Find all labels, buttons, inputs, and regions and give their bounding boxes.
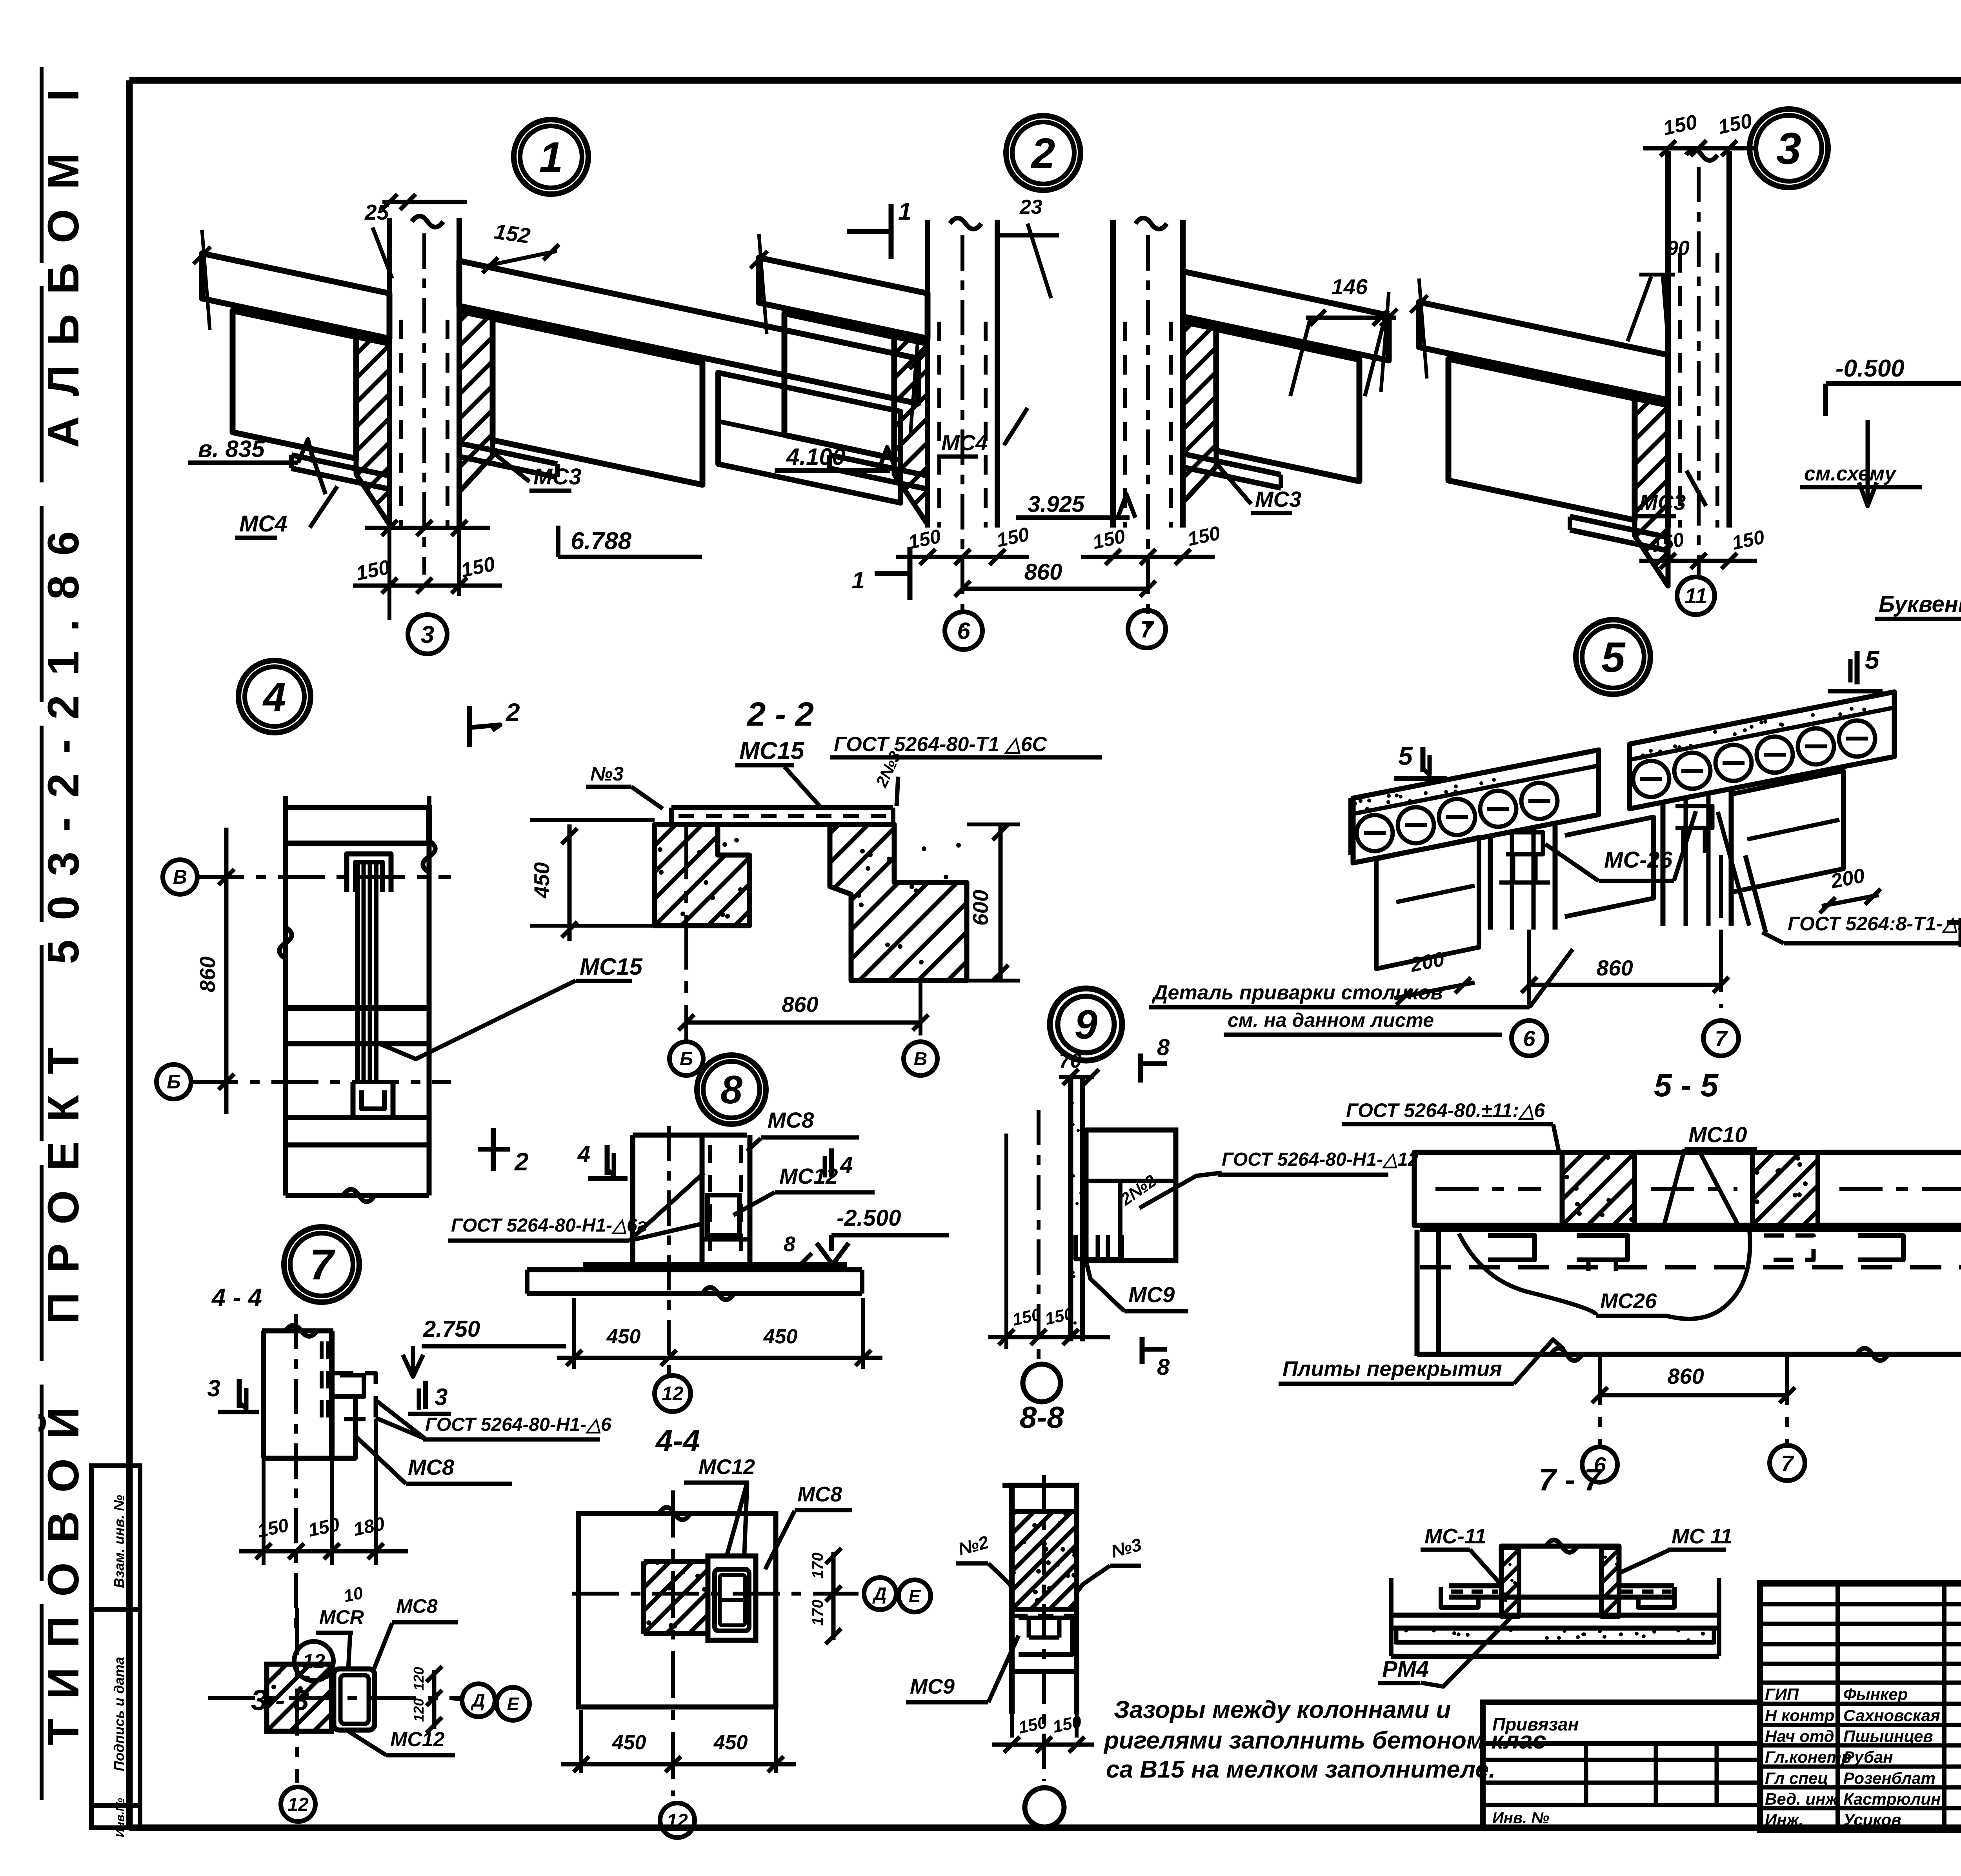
node 8 base [583,1262,847,1267]
section flag 2 top [467,706,472,747]
svg-text:Рубан: Рубан [1843,1748,1893,1766]
svg-text:МС15: МС15 [580,953,643,980]
svg-text:МС3: МС3 [1255,487,1301,511]
svg-text:МС 11: МС 11 [1672,1525,1732,1548]
svg-text:23: 23 [1019,196,1042,218]
svg-text:2 - 2: 2 - 2 [746,696,814,733]
node 4 dim 450 vertical [568,824,572,941]
5-5 dim 860 [1598,1354,1602,1447]
svg-text:в. 835: в. 835 [198,436,265,462]
node 9 bubble [1050,988,1122,1061]
svg-text:Фынкер: Фынкер [1843,1685,1908,1703]
svg-text:5: 5 [1398,741,1413,770]
8-8 column top [1002,1483,1079,1488]
axis bubble 7 [1128,610,1166,648]
svg-text:8: 8 [1157,1035,1170,1060]
svg-text:ГОСТ 5264-80-Н1-△6: ГОСТ 5264-80-Н1-△6 [425,1414,611,1435]
svg-text:4: 4 [840,1152,853,1178]
node 4 top beam [286,808,429,843]
3-3 dim right [432,1670,437,1729]
svg-text:146: 146 [1332,275,1368,299]
svg-text:МС8: МС8 [396,1595,438,1617]
node 9 section flag 8 top [1138,1054,1143,1083]
axis bubble 12 (n7) [294,1641,333,1681]
svg-text:450: 450 [612,1731,646,1754]
svg-text:Кастрюлин: Кастрюлин [1843,1790,1941,1808]
node 4 dim 860 vertical [224,828,229,1114]
svg-text:В: В [914,1049,928,1070]
svg-text:МС12: МС12 [779,1164,838,1188]
title block [1760,1583,1961,1830]
node 4 axis B [156,1064,191,1099]
svg-text:МС-26: МС-26 [1604,847,1673,873]
3-3 axes [208,1696,462,1700]
axis bubbles D E (4-4) [864,1578,896,1610]
svg-text:Пшыинцев: Пшыинцев [1843,1727,1933,1745]
svg-text:МС-11: МС-11 [1424,1525,1486,1548]
axis bubbles D E (3-3) [462,1684,495,1717]
svg-text:1: 1 [852,567,865,593]
node 5 stolik diagonals [1745,855,1766,932]
privyazan box [1483,1702,1760,1828]
svg-text:4: 4 [262,674,286,720]
svg-text:8: 8 [1157,1354,1170,1380]
svg-text:3: 3 [421,621,434,648]
7-7 plate band [1449,1583,1501,1589]
4-4 dim 450 [579,1710,583,1773]
svg-text:МС9: МС9 [1128,1282,1175,1307]
node 2 right slab [1183,271,1389,360]
node 7 base dims [262,1458,266,1565]
svg-text:Б: Б [167,1071,180,1093]
axis bubble V(2-2) [904,1042,937,1075]
node 1 right slab [459,261,918,404]
svg-text:4: 4 [577,1141,590,1167]
svg-text:12: 12 [287,1794,309,1815]
svg-text:см. на данном листе: см. на данном листе [1228,1009,1434,1031]
axis bubble B(2-2) [669,1042,703,1075]
svg-text:Гл.конетр: Гл.конетр [1765,1748,1852,1766]
svg-text:Инв. №: Инв. № [1492,1809,1549,1827]
svg-text:Н контр: Н контр [1765,1706,1834,1725]
svg-text:860: 860 [1596,955,1633,980]
2-2 dim 450 left [530,818,655,822]
svg-text:3: 3 [1776,124,1801,174]
axis bubble 6 (5-5) [1582,1447,1617,1482]
4-4 bracket channel [708,1556,756,1640]
svg-text:МС15: МС15 [739,737,805,764]
node 5 section flag 7 [1959,918,1961,947]
axis bubble 12 (3-3) [281,1787,315,1821]
axis bubble 11 [1677,577,1715,615]
8-8 concrete [1012,1512,1077,1609]
svg-text:7: 7 [1140,616,1154,642]
node 3 column [1665,151,1671,528]
svg-text:МС8: МС8 [768,1108,814,1132]
svg-text:8: 8 [784,1232,795,1256]
svg-text:ГОСТ 5264-80.±11:△6: ГОСТ 5264-80.±11:△6 [1346,1099,1545,1121]
4-4 axes [572,1592,859,1596]
node 8 inner MC12 [708,1195,739,1235]
svg-text:6.788: 6.788 [571,528,632,555]
svg-text:450: 450 [763,1325,798,1348]
svg-text:6: 6 [957,618,970,644]
page border frame [40,67,44,1820]
svg-text:3.925: 3.925 [1028,491,1085,517]
node 8 foundation [527,1267,862,1272]
svg-text:5: 5 [1601,633,1626,681]
node 5 dim 860 [1527,930,1531,1008]
axis bubble 7 (5-5) [1770,1445,1805,1481]
svg-text:ГОСТ 5264:8-Т1-△10: ГОСТ 5264:8-Т1-△10 [1788,913,1961,935]
axis bubble (n9) [1023,1364,1061,1402]
svg-text:МСR: МСR [319,1606,364,1628]
node 2 bottom dims [896,555,1029,559]
svg-text:МС26: МС26 [1600,1289,1657,1313]
svg-text:6: 6 [1523,1026,1535,1051]
svg-text:450: 450 [713,1731,748,1754]
axis bubble (8-8) [1025,1788,1064,1827]
section flag 2 bottom [491,1128,496,1171]
svg-text:7: 7 [1715,1026,1728,1051]
4-4 dim right 170 170 [831,1552,836,1640]
svg-text:170: 170 [809,1599,826,1626]
svg-text:Взам. инв. №: Взам. инв. № [111,1495,127,1588]
node 9 lower small blocks [1076,1235,1122,1259]
axis bubble 3 [408,615,447,654]
svg-text:Усиков: Усиков [1843,1810,1901,1829]
svg-text:Д: Д [470,1690,485,1710]
node 3 left slab [1419,302,1668,400]
7-7 lower band [1391,1613,1719,1618]
svg-text:Зазоры между колоннами и: Зазоры между колоннами и [1114,1696,1451,1723]
node 5 beams below band [1376,837,1479,969]
svg-text:2.750: 2.750 [423,1316,480,1342]
svg-text:МС9: МС9 [910,1675,955,1698]
5-5 plate row [1420,1223,1961,1228]
svg-text:см.схему: см.схему [1804,462,1897,485]
svg-text:ригелями заполнить бетоном: ригелями заполнить бетоном клас- [1103,1727,1554,1754]
svg-text:7: 7 [309,1241,335,1289]
4-4 concrete [644,1561,706,1634]
svg-text:450: 450 [529,862,554,899]
svg-text:450: 450 [606,1325,641,1348]
svg-text:МС8: МС8 [797,1483,842,1506]
8-8 dims 150 150 [1010,1714,1014,1738]
svg-text:12: 12 [667,1810,688,1831]
svg-text:600: 600 [968,890,993,926]
svg-text:860: 860 [782,992,818,1017]
5-5 dashed line [1420,1265,1961,1270]
left margin small boxes [91,1466,140,1828]
node 3 bubble [1750,109,1828,187]
5-5 upper slabs [1414,1152,1562,1225]
node 1 bottom dims [365,526,490,530]
svg-text:4.100: 4.100 [786,444,845,470]
node 2 section flag 1 top [889,204,894,259]
node 8 dims 450 450 [572,1298,576,1369]
node 9 dims 150 150 [1004,1134,1008,1349]
svg-text:Е: Е [507,1694,520,1714]
svg-text:5: 5 [1865,645,1880,674]
svg-text:152: 152 [493,219,532,248]
node 5 hollowcore slabs [1353,750,1599,863]
svg-text:РМ4: РМ4 [1382,1656,1429,1682]
5-5 concrete joint left [1562,1152,1635,1225]
node 5 bubble [1576,620,1650,694]
node 1 left slab [202,253,389,338]
svg-text:Вед. инж: Вед. инж [1765,1790,1839,1808]
2-2 dim 600 right [967,822,1020,826]
node 9 plate block [1086,1130,1176,1261]
svg-text:860: 860 [195,956,220,992]
2-2 left concrete pier [655,824,749,926]
svg-text:11: 11 [1684,584,1707,608]
svg-text:170: 170 [809,1552,826,1579]
svg-text:860: 860 [1667,1364,1704,1388]
5-5 left end verticals [1415,1230,1420,1356]
svg-text:4 - 4: 4 - 4 [211,1283,262,1312]
svg-text:ГОСТ 5264-80-Н1-△6г: ГОСТ 5264-80-Н1-△6г [451,1215,647,1236]
svg-text:МС12: МС12 [699,1455,755,1479]
svg-text:Гл спец: Гл спец [1765,1769,1828,1787]
svg-text:12: 12 [662,1383,684,1405]
svg-text:Деталь приварки столиков: Деталь приварки столиков [1151,981,1443,1004]
svg-text:860: 860 [1024,559,1062,585]
7-7 upper box [1501,1546,1619,1585]
svg-text:90: 90 [1667,237,1690,260]
node 2 section flag 1 bottom [908,547,913,600]
7-7 posts concrete [1501,1547,1519,1616]
node 4 bubble [238,661,311,733]
svg-text:Плиты перекрытия: Плиты перекрытия [1282,1357,1502,1381]
node 2 left column [925,220,930,528]
axis bubble 12 (n8) [655,1376,691,1412]
svg-text:8: 8 [720,1068,743,1112]
svg-text:В: В [173,866,187,888]
svg-text:ГОСТ 5264-80-Т1 △6С: ГОСТ 5264-80-Т1 △6С [834,733,1048,756]
node 7 bubble [284,1227,359,1302]
svg-text:3: 3 [435,1384,448,1410]
svg-text:Б: Б [680,1049,693,1070]
svg-text:Нач отд: Нач отд [1765,1727,1834,1745]
svg-text:МС8: МС8 [408,1455,455,1479]
node 2 left slab [759,258,928,338]
svg-text:9: 9 [1075,1002,1097,1048]
5-5 bottom rail [1417,1352,1961,1357]
node 2 bubble [1006,116,1081,190]
svg-text:Д: Д [872,1583,886,1604]
8-8 bracket [1012,1614,1077,1618]
svg-text:Сахновская: Сахновская [1843,1706,1940,1725]
node 4 channel bracket top [347,854,391,892]
node 8 channel zone [700,1135,705,1265]
node 9 section flag 8 bottom [1140,1337,1145,1364]
svg-text:ТИПОВОЙ ПРОЕКТ 503-2-21.86: ТИПОВОЙ ПРОЕКТ 503-2-21.86 АЛЬБОМ I [39,69,88,1745]
2-2 steel plate MC15 [671,805,893,810]
5-5 brackets below [1488,1236,1535,1260]
node 8 bubble [697,1055,766,1124]
node 4 bottom beam [286,1005,429,1011]
svg-text:ГИП: ГИП [1765,1685,1799,1703]
axis bubble 7 (n5) [1703,1021,1739,1056]
node 3 bottom dims [1639,559,1757,563]
svg-text:7: 7 [1781,1451,1794,1476]
svg-text:ГОСТ 5264-80-Н1-△12: ГОСТ 5264-80-Н1-△12 [1222,1149,1419,1170]
svg-text:4-4: 4-4 [655,1423,700,1458]
node 7 bracket [332,1373,376,1419]
node 4 axis V [163,860,197,894]
svg-text:Буквенная ось: Буквенная ось [1879,591,1961,617]
svg-text:1: 1 [898,198,911,225]
node 4 column bars [355,862,360,1082]
svg-text:3: 3 [207,1375,220,1401]
svg-text:са В15 на мелком заполните: са В15 на мелком заполнителе. [1106,1756,1495,1783]
svg-text:Е: Е [909,1586,921,1606]
svg-text:1: 1 [539,133,563,181]
axis bubble 6 [945,612,982,650]
svg-text:5 - 5: 5 - 5 [1654,1068,1719,1103]
svg-text:МС3: МС3 [533,464,581,489]
svg-text:МС4: МС4 [941,430,988,455]
axis bubble 6 (n5) [1512,1021,1547,1056]
svg-text:МС12: МС12 [390,1728,445,1751]
node 2 right column [1110,220,1116,528]
node 4 wall edges [283,843,288,1195]
node 1 bubble [514,120,588,194]
svg-text:120: 120 [411,1698,427,1722]
svg-text:МС4: МС4 [239,511,287,537]
svg-text:№3: №3 [590,763,624,785]
node 5 left column cluster [1488,834,1493,930]
4-4 outer square [578,1514,776,1707]
node 4 channel bracket bottom [353,1082,393,1117]
node 7 column [261,1331,266,1458]
node 8 column top [633,1133,747,1138]
svg-text:Подпись и дата: Подпись и дата [111,1657,127,1771]
node 2 dim 860 [962,587,1148,591]
svg-text:120: 120 [411,1667,427,1690]
svg-text:Розенблат: Розенблат [1843,1769,1936,1787]
axis bubble 12 (4-4) [660,1803,695,1838]
svg-text:Инж.: Инж. [1765,1810,1803,1829]
node 1 column [387,218,392,528]
3-3 bracket tube [334,1669,375,1730]
svg-text:-0.500: -0.500 [1835,355,1905,382]
3-3 concrete square [267,1664,331,1731]
svg-text:2: 2 [514,1148,529,1176]
2-2 right concrete pier [830,824,967,981]
node 9 wall [1068,1077,1073,1341]
7-7 ext verticals [1389,1578,1393,1656]
5-5 concrete joint right [1752,1152,1818,1225]
svg-text:8-8: 8-8 [1020,1400,1064,1434]
svg-text:МС10: МС10 [1688,1122,1747,1147]
2-2 dim 860 [684,824,688,1041]
svg-text:МС3: МС3 [1639,490,1686,515]
svg-text:7 - 7: 7 - 7 [1539,1462,1603,1497]
node 5 right column cluster [1661,800,1666,926]
svg-text:2: 2 [1031,129,1055,177]
svg-text:2: 2 [506,698,520,726]
svg-text:Инв.№: Инв.№ [114,1798,127,1838]
svg-text:-2.500: -2.500 [837,1205,901,1231]
